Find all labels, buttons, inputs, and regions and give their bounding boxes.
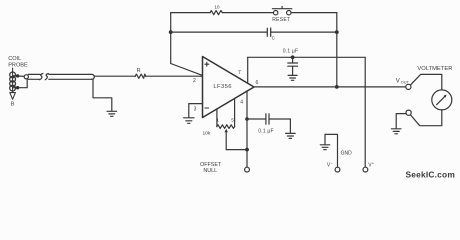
coil probe L1 (sensing coil) — [10, 68, 16, 92]
wire diagonal to op-amp input — [171, 64, 203, 76]
svg-text:OFFSET: OFFSET — [200, 162, 222, 168]
wire coil top tap to cable center — [13, 75, 25, 78]
svg-text:LF356: LF356 — [213, 84, 231, 90]
svg-text:1: 1 — [216, 117, 219, 123]
wiper arrow — [225, 129, 248, 150]
svg-text:7: 7 — [238, 70, 241, 76]
wire reset switch to feedback right leg — [291, 12, 337, 14]
wire top feedback left segment — [171, 12, 210, 14]
terminal offset/V- supply — [245, 167, 250, 172]
capacitor 0.1uF (V+ bypass) — [283, 48, 298, 75]
terminal V+ — [363, 160, 375, 172]
svg-text:6: 6 — [256, 80, 259, 86]
ground (V-) — [320, 145, 329, 150]
svg-text:4: 4 — [240, 99, 243, 105]
B field direction arrow — [10, 93, 16, 108]
svg-text:5: 5 — [231, 117, 234, 123]
capacitor C (integrating) — [267, 28, 274, 41]
node feedback left junction — [169, 30, 173, 34]
terminal V- with ground — [325, 134, 340, 172]
node feedback right junction — [335, 30, 339, 34]
node coil bottom tap — [16, 86, 19, 89]
ground (voltmeter) — [391, 129, 401, 134]
terminal lower jack — [406, 110, 411, 115]
svg-text:3: 3 — [194, 106, 197, 112]
wire C feedback line left — [171, 31, 268, 33]
pin 5 wire — [234, 98, 236, 126]
node pin4 / decoupling cap — [245, 117, 249, 121]
svg-text:V: V — [396, 78, 400, 84]
svg-text:0.1 µF: 0.1 µF — [258, 128, 273, 134]
wire Vout to voltmeter top — [410, 74, 441, 90]
wire R to op-amp inverting input (pin 2) — [146, 75, 203, 77]
pin 4 wire down — [246, 91, 248, 119]
wire V+ vertical down to terminal — [364, 57, 366, 167]
svg-text:PROBE: PROBE — [8, 63, 28, 69]
switch S1 RESET (pushbutton) — [272, 7, 292, 24]
svg-text:2: 2 — [193, 78, 196, 84]
label OFFSET NULL — [200, 162, 222, 174]
wire pin4 down to V- terminal — [246, 119, 248, 150]
svg-text:10k: 10k — [203, 130, 211, 136]
svg-text:10: 10 — [214, 5, 220, 11]
node wiper junction — [245, 148, 249, 152]
node coil top tap — [16, 74, 19, 77]
ground (cable shield) — [107, 111, 117, 116]
pin 7 wire V+ — [247, 57, 249, 83]
potentiometer 10k (offset null) — [203, 125, 235, 137]
svg-text:B: B — [11, 101, 15, 107]
wire C feedback line right — [271, 31, 337, 33]
svg-text:C: C — [272, 36, 275, 41]
wire resistor to reset switch — [222, 12, 273, 14]
svg-text:GND: GND — [341, 151, 353, 157]
svg-text:COIL: COIL — [8, 56, 21, 62]
svg-text:SeekIC.com: SeekIC.com — [406, 170, 455, 180]
resistor 10 (reset resistor) — [210, 5, 222, 15]
wire feedback vertical to output — [336, 13, 338, 87]
wire voltmeter bottom to lower jack — [411, 110, 442, 126]
resistor R — [135, 68, 145, 79]
label V- — [327, 160, 334, 168]
voltmeter M1 — [432, 90, 452, 110]
pin 6 output wire — [254, 86, 406, 88]
label COIL PROBE — [8, 56, 28, 68]
ground (V+ bypass) — [288, 75, 297, 80]
wire to offset terminal circle — [246, 150, 248, 168]
svg-text:NULL: NULL — [203, 168, 217, 174]
node bypass cap tap — [291, 55, 295, 59]
terminal Vout — [406, 84, 411, 89]
wire coil bottom tap to cable shield — [13, 80, 28, 88]
wire summing node vertical (feedback left leg) — [170, 13, 172, 64]
node feedback to output — [335, 85, 339, 89]
capacitor 0.1uF (V- decoupling) — [247, 114, 290, 134]
wire V+ rail — [248, 56, 366, 58]
svg-text:0.1 µF: 0.1 µF — [283, 48, 298, 54]
svg-text:RESET: RESET — [272, 17, 290, 23]
wire lower jack to ground — [396, 114, 406, 129]
wire cable shield to ground — [93, 79, 112, 111]
coax cable (shielded probe cable) — [24, 74, 94, 80]
svg-text:VOLTMETER: VOLTMETER — [417, 66, 452, 72]
op-amp U1 LF356 — [203, 57, 255, 118]
ground (V- decoupling) — [286, 133, 296, 138]
label Vout — [396, 78, 410, 84]
svg-text:R: R — [137, 68, 141, 74]
pin 1 wire — [216, 109, 218, 127]
ground (pin 3) — [184, 118, 194, 124]
pin 3 wire to ground — [189, 104, 203, 118]
wire cable to resistor R — [94, 75, 135, 77]
